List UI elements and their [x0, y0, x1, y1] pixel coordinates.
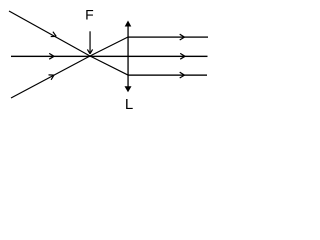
arrowhead of focal point pointer	[87, 49, 92, 53]
svg-text:L: L	[125, 96, 133, 113]
ray 1 incoming segment: from top-left converging to focal point F	[9, 11, 90, 56]
ray 2: axis ray along the optical axis	[11, 56, 208, 57]
arrowhead on incoming segment of ray 3	[49, 75, 55, 80]
arrowhead on incoming axis ray	[49, 53, 54, 59]
ray 3 segment from F to lens top	[90, 37, 128, 56]
svg-text:F: F	[85, 7, 94, 23]
lens bottom filled arrowhead	[125, 86, 132, 92]
arrowhead on incoming segment of ray 1	[51, 32, 57, 37]
ray 1 segment from F to lens bottom	[90, 56, 128, 75]
lens L: vertical line of double-headed arrow	[127, 23, 128, 87]
pointer line from label F down to focal point	[89, 31, 90, 53]
arrowhead on top output ray	[180, 34, 185, 40]
ray 3 top output ray (parallel to axis)	[128, 36, 208, 37]
arrowhead on bottom output ray	[180, 72, 185, 78]
ray 3 incoming segment: from bottom-left converging to focal point F	[11, 56, 90, 98]
arrowhead on output axis ray	[180, 53, 185, 59]
lens top filled arrowhead	[125, 21, 132, 27]
ray 1 bottom output ray (parallel to axis)	[128, 74, 207, 75]
